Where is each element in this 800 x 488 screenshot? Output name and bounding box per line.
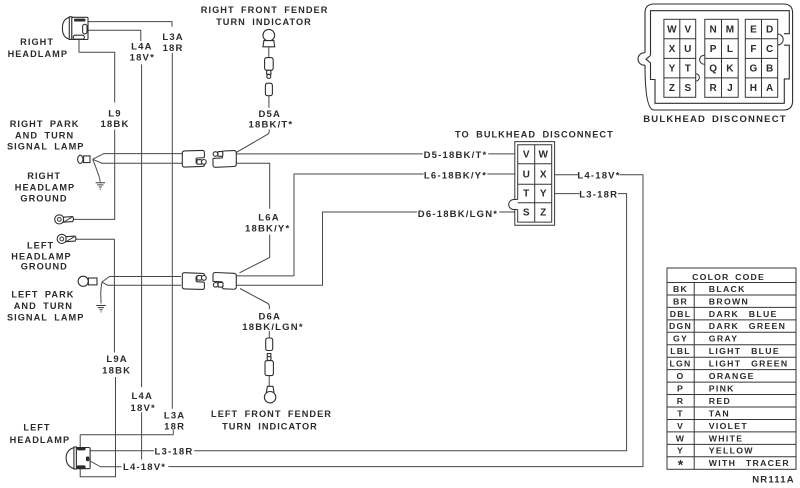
svg-text:ORANGE: ORANGE — [709, 371, 755, 381]
svg-text:X: X — [540, 169, 547, 180]
svg-text:BULKHEAD DISCONNECT: BULKHEAD DISCONNECT — [643, 114, 787, 125]
svg-text:W: W — [667, 24, 677, 35]
svg-text:18V*: 18V* — [130, 403, 155, 414]
svg-text:L6A: L6A — [258, 213, 280, 224]
svg-text:P: P — [677, 383, 684, 393]
svg-text:HEADLAMP: HEADLAMP — [15, 183, 75, 193]
svg-text:F: F — [750, 44, 756, 55]
svg-text:LEFT FRONT FENDER: LEFT FRONT FENDER — [211, 409, 332, 419]
svg-text:PINK: PINK — [709, 383, 735, 393]
svg-text:LIGHT BLUE: LIGHT BLUE — [709, 346, 780, 356]
svg-text:HEADLAMP: HEADLAMP — [11, 252, 71, 262]
svg-text:S: S — [523, 208, 530, 219]
svg-text:RIGHT FRONT FENDER: RIGHT FRONT FENDER — [201, 5, 329, 15]
svg-text:S: S — [684, 83, 691, 94]
svg-text:LIGHT GREEN: LIGHT GREEN — [709, 359, 789, 369]
svg-text:18R: 18R — [163, 43, 184, 54]
svg-text:P: P — [710, 44, 717, 55]
svg-text:TURN INDICATOR: TURN INDICATOR — [216, 17, 312, 27]
svg-text:TO BULKHEAD DISCONNECT: TO BULKHEAD DISCONNECT — [455, 130, 614, 140]
svg-text:L9A: L9A — [106, 354, 128, 365]
svg-text:Z: Z — [669, 83, 675, 94]
svg-text:AND TURN: AND TURN — [15, 130, 74, 140]
svg-text:L4-18V*: L4-18V* — [123, 462, 166, 473]
svg-text:U: U — [684, 44, 691, 55]
svg-text:RIGHT: RIGHT — [20, 37, 54, 47]
svg-text:D6-18BK/LGN*: D6-18BK/LGN* — [418, 209, 498, 220]
svg-text:J: J — [727, 83, 733, 94]
svg-text:DBL: DBL — [670, 309, 691, 319]
svg-text:BR: BR — [673, 296, 688, 306]
svg-text:LGN: LGN — [670, 359, 692, 369]
svg-text:W: W — [538, 150, 548, 161]
svg-text:AND TURN: AND TURN — [14, 301, 73, 311]
svg-text:L: L — [727, 44, 733, 55]
svg-text:RED: RED — [709, 396, 731, 406]
svg-text:18R: 18R — [164, 422, 185, 433]
svg-text:BK: BK — [673, 284, 688, 294]
svg-text:L3A: L3A — [162, 32, 184, 43]
svg-text:GY: GY — [673, 334, 688, 344]
svg-text:D6A: D6A — [258, 311, 281, 322]
svg-text:T: T — [677, 408, 684, 418]
svg-text:C: C — [766, 44, 773, 55]
svg-text:GROUND: GROUND — [20, 193, 67, 203]
svg-text:TAN: TAN — [709, 408, 730, 418]
svg-text:L4-18V*: L4-18V* — [577, 170, 620, 181]
svg-text:Z: Z — [540, 208, 546, 219]
svg-text:Y: Y — [669, 63, 676, 74]
svg-text:COLOR CODE: COLOR CODE — [692, 272, 765, 282]
svg-text:Y: Y — [540, 189, 547, 200]
svg-text:YELLOW: YELLOW — [709, 446, 754, 456]
svg-text:L6-18BK/Y*: L6-18BK/Y* — [424, 171, 487, 182]
svg-text:GRAY: GRAY — [709, 334, 739, 344]
svg-text:18BK: 18BK — [100, 119, 129, 130]
svg-text:LBL: LBL — [670, 346, 691, 356]
svg-text:BLACK: BLACK — [709, 284, 746, 294]
svg-text:Y: Y — [677, 446, 684, 456]
svg-text:T: T — [523, 189, 529, 200]
svg-text:D5A: D5A — [258, 109, 281, 120]
svg-text:L4A: L4A — [132, 391, 154, 402]
svg-text:U: U — [523, 169, 530, 180]
svg-text:V: V — [684, 24, 691, 35]
svg-text:N: N — [709, 24, 716, 35]
svg-text:HEADLAMP: HEADLAMP — [8, 49, 68, 59]
svg-text:WHITE: WHITE — [709, 433, 744, 443]
svg-text:BROWN: BROWN — [709, 296, 749, 306]
svg-text:O: O — [677, 371, 685, 381]
svg-text:X: X — [669, 44, 676, 55]
svg-text:L3A: L3A — [164, 410, 186, 421]
svg-text:LEFT PARK: LEFT PARK — [11, 289, 74, 299]
svg-text:LEFT: LEFT — [27, 240, 54, 250]
svg-text:H: H — [750, 83, 757, 94]
svg-text:A: A — [766, 83, 773, 94]
svg-text:18V*: 18V* — [130, 52, 155, 63]
svg-text:18BK/Y*: 18BK/Y* — [245, 224, 290, 235]
svg-text:HEADLAMP: HEADLAMP — [10, 435, 70, 445]
svg-text:18BK/LGN*: 18BK/LGN* — [242, 322, 303, 333]
svg-text:WITH TRACER: WITH TRACER — [709, 458, 790, 468]
svg-text:W: W — [676, 433, 685, 443]
svg-text:LEFT: LEFT — [23, 423, 50, 433]
svg-text:SIGNAL LAMP: SIGNAL LAMP — [7, 142, 84, 152]
svg-text:RIGHT PARK: RIGHT PARK — [10, 119, 80, 129]
svg-text:K: K — [726, 63, 734, 74]
svg-text:R: R — [677, 396, 684, 406]
svg-text:GROUND: GROUND — [21, 262, 68, 272]
svg-text:V: V — [523, 150, 530, 161]
svg-text:TURN INDICATOR: TURN INDICATOR — [222, 422, 318, 432]
svg-text:RIGHT: RIGHT — [27, 171, 61, 181]
svg-text:G: G — [750, 63, 758, 74]
svg-text:R: R — [709, 83, 717, 94]
svg-text:E: E — [750, 24, 757, 35]
svg-text:SIGNAL LAMP: SIGNAL LAMP — [7, 313, 84, 323]
svg-text:DARK BLUE: DARK BLUE — [709, 309, 778, 319]
svg-text:V: V — [677, 421, 684, 431]
svg-text:B: B — [766, 63, 773, 74]
svg-text:M: M — [726, 24, 734, 35]
svg-text:NR111A: NR111A — [752, 475, 795, 486]
svg-text:D: D — [766, 24, 773, 35]
svg-text:D5-18BK/T*: D5-18BK/T* — [424, 150, 488, 161]
svg-text:L3-18R: L3-18R — [579, 189, 618, 200]
svg-text:*: * — [678, 457, 684, 473]
svg-text:VIOLET: VIOLET — [709, 421, 748, 431]
svg-text:DARK GREEN: DARK GREEN — [709, 321, 786, 331]
svg-text:Q: Q — [709, 63, 717, 74]
svg-text:DGN: DGN — [669, 321, 692, 331]
svg-text:T: T — [685, 63, 691, 74]
svg-text:18BK/T*: 18BK/T* — [248, 120, 293, 131]
svg-text:18BK: 18BK — [102, 365, 131, 376]
svg-text:L3-18R: L3-18R — [155, 447, 194, 458]
svg-text:L4A: L4A — [131, 41, 153, 52]
svg-text:L9: L9 — [108, 109, 122, 120]
